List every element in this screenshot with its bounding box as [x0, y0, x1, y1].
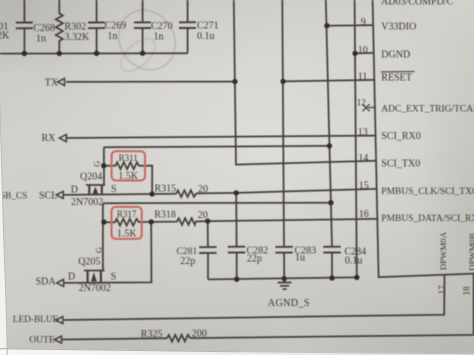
pin 12 stub with no-connect X [362, 104, 375, 111]
red highlight box R311 [112, 151, 145, 180]
wire vertical V33DIO net down to C284 [326, 0, 332, 246]
overline RESET [381, 71, 415, 73]
wire TX line [66, 81, 235, 83]
wire RX line to pin 13 [67, 136, 376, 138]
wire RESET segment to pin 11 [283, 80, 375, 82]
wire R318 to pin 16 [196, 219, 377, 222]
wire R325 to right edge / pin 18 [190, 273, 474, 338]
arrow SCL [56, 191, 63, 198]
wire SDA line and Q205 source vertical [63, 222, 151, 283]
capacitor C283 1u [275, 247, 292, 279]
wire OUTE line [62, 338, 167, 339]
resistor R302 [56, 0, 63, 53]
capacitor C281 22p [199, 221, 216, 279]
pin 9 stub [327, 24, 374, 27]
photo white margins [0, 90, 474, 355]
pin 10 stub [355, 52, 374, 55]
pen smudge circle [107, 0, 186, 81]
resistor R311 1.5K [104, 162, 153, 194]
wire vertical DGND bus [355, 0, 357, 277]
wire vertical RESET net down to C283 [282, 0, 284, 246]
paper grain [0, 0, 1, 1]
arrow RX [59, 135, 66, 142]
wire R311 top line to V33DIO net [104, 146, 330, 147]
wire Q204 gate vertical [103, 147, 105, 185]
IC U? left edge [373, 0, 474, 277]
capacitor C270 [134, 0, 151, 53]
wire analog ground bus [208, 277, 357, 279]
arrow LED-BLUE [56, 317, 63, 324]
capacitor C284 0.1u [323, 247, 340, 278]
resistor R317 1.5K [104, 219, 151, 226]
capacitor C268 [16, 0, 33, 54]
wire Q205 gate vertical [102, 203, 104, 270]
arrow OUTE [55, 336, 62, 343]
resistor R325 200 [167, 335, 190, 342]
wire R317 top line to V33DIO net [103, 202, 331, 205]
wire top DGND cap bus [0, 52, 188, 54]
transistor Q205 2N7002 [84, 270, 105, 282]
wire vertical net to pin 14 [234, 0, 376, 165]
capacitor C271 [179, 0, 196, 53]
arrow TX [58, 78, 65, 85]
red highlight box R317 [112, 207, 142, 239]
wire SCL line through Q204 and R315 to pin 15 [63, 194, 177, 195]
resistor R315 20 [176, 190, 196, 197]
transistor Q204 2N7002 [86, 185, 105, 195]
wire LED-BLUE line from pin 17 [64, 275, 445, 320]
capacitor C269 [88, 0, 105, 53]
arrow SDA [57, 279, 64, 286]
capacitor C282 22p [228, 193, 245, 279]
ground AGND_S [278, 279, 292, 290]
wire R315 to pin 15 [196, 189, 376, 194]
resistor R318 20 [151, 218, 195, 225]
